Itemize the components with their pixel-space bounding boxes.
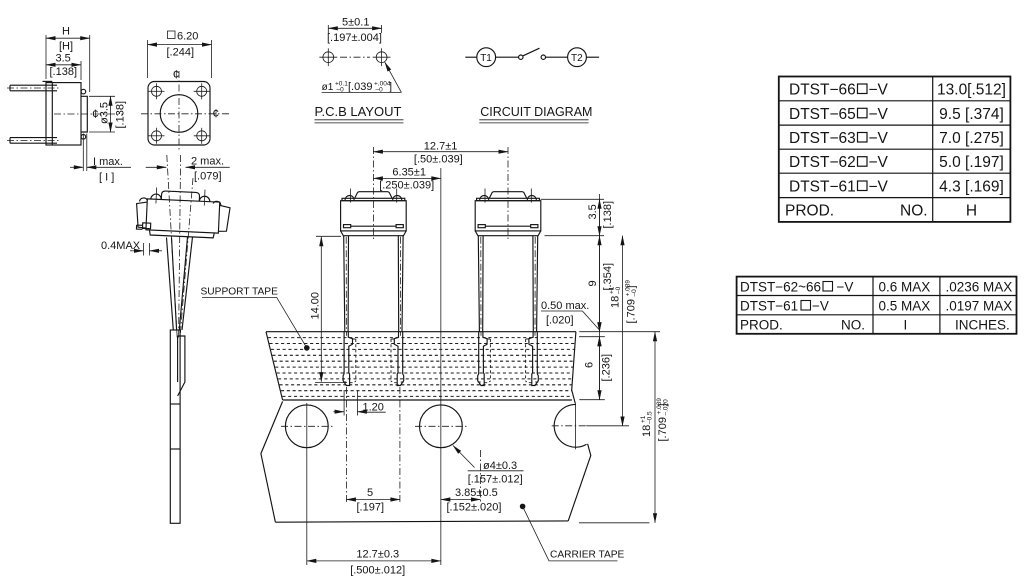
dimension 14.00 left <box>310 236 348 382</box>
switch blade <box>523 48 540 56</box>
contact right <box>541 55 545 59</box>
hidden leg ends of switch1 <box>343 332 356 386</box>
svg-text:[H]: [H] <box>59 41 73 53</box>
side view top leg <box>7 85 59 91</box>
svg-text:6.35±1: 6.35±1 <box>392 167 426 179</box>
svg-text:18: 18 <box>641 425 653 437</box>
svg-text:−V: −V <box>869 130 889 147</box>
sprocket hole 3 partial at torn edge <box>552 403 587 449</box>
dimension 3.85 +-0.5 <box>441 450 502 514</box>
side view bump circle top <box>81 89 86 94</box>
svg-text:[.236]: [.236] <box>601 354 613 382</box>
svg-text:–0: –0 <box>337 87 345 94</box>
svg-text:5±0.1: 5±0.1 <box>342 17 369 29</box>
svg-text:[.709: [.709 <box>626 299 638 323</box>
svg-text:]: ] <box>389 81 392 93</box>
svg-text:T1: T1 <box>480 53 492 64</box>
dimension 18 +1/0 right <box>609 236 639 426</box>
side view centerline <box>54 113 123 115</box>
top view vertical centerline <box>178 71 180 150</box>
top view horizontal centerline <box>141 113 229 115</box>
dimension 0.50 max tape edge <box>541 300 599 346</box>
svg-text:–0.5: –0.5 <box>647 411 654 424</box>
svg-text:1.20: 1.20 <box>363 401 384 413</box>
svg-text:[.020]: [.020] <box>546 315 574 327</box>
svg-text:DTST−66: DTST−66 <box>789 82 856 99</box>
side view plunger <box>81 96 87 132</box>
svg-text:6: 6 <box>584 362 596 368</box>
front view legs converging <box>167 237 193 330</box>
switch 2 on tape <box>475 189 541 336</box>
svg-text:[.079]: [.079] <box>194 171 222 183</box>
svg-text:[.709: [.709 <box>657 417 669 441</box>
svg-text:3.5: 3.5 <box>56 53 71 65</box>
svg-text:ø1: ø1 <box>322 82 334 93</box>
top view center circle <box>160 95 198 133</box>
hidden leg ends of switch2 <box>478 332 491 386</box>
terminal T2 <box>568 48 587 67</box>
dimension 18 +1/-0.5 right outer <box>640 332 670 523</box>
svg-text:−V: −V <box>869 179 889 196</box>
wire contact to T2 <box>546 56 568 58</box>
side view bump circle bottom <box>81 135 86 140</box>
svg-text:[.197]: [.197] <box>357 502 385 514</box>
svg-text:[.354]: [.354] <box>602 263 614 291</box>
svg-text:2 max.: 2 max. <box>191 156 224 168</box>
svg-text:CARRIER TAPE: CARRIER TAPE <box>550 550 625 561</box>
svg-text:I max.: I max. <box>93 156 123 168</box>
pcb hole right <box>373 48 391 66</box>
svg-text:−V: −V <box>812 299 829 314</box>
wire T1 to contact <box>496 56 519 58</box>
svg-text:[.138]: [.138] <box>115 101 127 129</box>
support tape strip side view <box>170 330 185 523</box>
wire right <box>586 56 599 58</box>
svg-text:18: 18 <box>610 296 622 308</box>
svg-text:H: H <box>62 26 70 38</box>
carrier tape label <box>520 504 625 561</box>
svg-text:[.138]: [.138] <box>602 201 614 229</box>
corner hole top-right <box>194 83 210 99</box>
svg-text:9: 9 <box>587 280 599 286</box>
svg-text:DTST−62~66: DTST−62~66 <box>740 280 821 295</box>
dimension 5 lead spacing <box>346 387 400 514</box>
dimension H <box>46 26 90 93</box>
svg-text:]: ] <box>626 285 638 288</box>
svg-text:DTST−61: DTST−61 <box>789 179 856 196</box>
svg-text:H: H <box>966 203 977 220</box>
wire left <box>465 56 477 58</box>
svg-text:[.157±.012]: [.157±.012] <box>468 474 523 486</box>
svg-text:5: 5 <box>367 487 373 499</box>
dimension 12.7 +-1 top <box>373 141 508 166</box>
pcb layout title <box>315 104 404 123</box>
svg-text:[.152±.020]: [.152±.020] <box>447 502 502 514</box>
dimension 3.5 body <box>46 53 81 81</box>
svg-text:–0: –0 <box>376 87 384 94</box>
svg-text:[ I ]: [ I ] <box>99 172 114 184</box>
pcb hole left <box>319 48 337 66</box>
front view switch body <box>135 187 231 239</box>
svg-text:[.250±.039]: [.250±.039] <box>379 179 434 191</box>
svg-text:12.7±1: 12.7±1 <box>424 141 458 153</box>
sprocket hole 2 <box>415 405 467 448</box>
top view body square <box>148 82 210 146</box>
dimension 12.7 +-0.3 bottom <box>307 549 441 577</box>
svg-text:T2: T2 <box>571 53 583 64</box>
svg-text:ø3.5: ø3.5 <box>99 102 111 124</box>
svg-text:3.5: 3.5 <box>587 204 599 219</box>
svg-text:]: ] <box>657 403 669 406</box>
pcb centerline between holes <box>340 56 370 58</box>
corner hole top-left <box>149 83 165 99</box>
svg-text:0.4MAX: 0.4MAX <box>101 240 141 252</box>
corner hole bottom-left <box>149 128 165 144</box>
svg-text:¢: ¢ <box>173 68 180 82</box>
support tape band with dashes <box>266 332 576 403</box>
svg-text:¢: ¢ <box>213 107 220 121</box>
svg-text:0.50 max.: 0.50 max. <box>541 300 589 312</box>
svg-text:6.20: 6.20 <box>177 31 198 43</box>
svg-text:−V: −V <box>869 154 889 171</box>
carrier tape body <box>261 401 591 522</box>
dimension square 6.20 <box>148 31 212 79</box>
svg-text:−V: −V <box>869 82 889 99</box>
support tape label <box>201 287 310 351</box>
circuit diagram title <box>479 105 592 123</box>
svg-text:0.6 MAX: 0.6 MAX <box>879 280 931 295</box>
svg-text:ø4±0.3: ø4±0.3 <box>483 460 517 472</box>
svg-text:SUPPORT TAPE: SUPPORT TAPE <box>201 287 279 298</box>
corner hole bottom-right <box>194 128 210 144</box>
dimension 6.35 +-1 <box>373 167 440 192</box>
svg-text:[.500±.012]: [.500±.012] <box>350 565 405 577</box>
side view bottom leg <box>7 138 59 144</box>
svg-text:I: I <box>904 318 908 333</box>
sprocket hole diameter label <box>453 446 524 486</box>
adhesive dashed rows <box>268 338 575 397</box>
svg-text:3.85±0.5: 3.85±0.5 <box>455 487 498 499</box>
svg-text:[.138]: [.138] <box>50 66 78 78</box>
svg-text:9.5 [.374]: 9.5 [.374] <box>939 106 1004 123</box>
sprocket centerline between switches <box>440 168 442 565</box>
svg-text:.0197 MAX: .0197 MAX <box>946 299 1013 314</box>
svg-text:7.0 [.275]: 7.0 [.275] <box>939 130 1004 147</box>
svg-text:[.039: [.039 <box>348 81 372 93</box>
svg-text:–0: –0 <box>615 286 622 294</box>
svg-text:PROD.: PROD. <box>740 318 783 333</box>
svg-text:4.3 [.169]: 4.3 [.169] <box>939 179 1004 196</box>
svg-text:5.0 [.197]: 5.0 [.197] <box>939 154 1004 171</box>
svg-text:P.C.B LAYOUT: P.C.B LAYOUT <box>315 104 402 119</box>
svg-text:DTST−65: DTST−65 <box>789 106 856 123</box>
sprocket hole 1 <box>281 403 333 565</box>
side view body <box>43 81 82 145</box>
pcb hole diameter label <box>322 62 402 93</box>
svg-text:12.7±0.3: 12.7±0.3 <box>356 549 399 561</box>
svg-text:–0: –0 <box>631 289 638 297</box>
svg-text:CIRCUIT DIAGRAM: CIRCUIT DIAGRAM <box>480 105 592 119</box>
svg-text:14.00: 14.00 <box>310 292 322 320</box>
dimension phi 3.5 plunger <box>89 96 127 132</box>
dimension 6 right <box>584 337 613 400</box>
svg-text:[.50±.039]: [.50±.039] <box>414 153 463 165</box>
switch 2 centerline <box>507 147 509 240</box>
svg-text:PROD.: PROD. <box>785 203 834 220</box>
dimension 1.20 leg width <box>333 390 385 416</box>
contact left <box>519 55 523 59</box>
switch 1 on tape <box>341 189 407 336</box>
dimension 0.4MAX <box>101 240 162 256</box>
svg-text:[.197±.004]: [.197±.004] <box>327 32 382 44</box>
dimension 3.5 right <box>587 194 614 400</box>
dimension 9 right <box>587 236 614 332</box>
svg-text:NO.: NO. <box>841 318 865 333</box>
svg-text:−V: −V <box>869 106 889 123</box>
svg-text:DTST−63: DTST−63 <box>789 130 856 147</box>
svg-text:0.5 MAX: 0.5 MAX <box>879 299 931 314</box>
svg-text:−V: −V <box>837 280 854 295</box>
svg-text:13.0[.512]: 13.0[.512] <box>937 82 1006 99</box>
svg-text:.0236 MAX: .0236 MAX <box>946 280 1013 295</box>
extension lines right of switch2 <box>541 199 660 523</box>
terminal T1 <box>477 48 496 67</box>
svg-text:[.244]: [.244] <box>167 47 195 59</box>
switch 1 centerline <box>372 147 374 240</box>
svg-text:NO.: NO. <box>900 203 928 220</box>
dimension 2 max <box>146 156 230 183</box>
leg centerlines converging <box>167 155 193 338</box>
svg-text:DTST−61: DTST−61 <box>740 299 798 314</box>
pcb dimension 5 +-0.1 <box>327 17 382 45</box>
dimension I max travel <box>70 134 131 184</box>
svg-text:INCHES.: INCHES. <box>955 318 1010 333</box>
svg-text:DTST−62: DTST−62 <box>789 154 856 171</box>
